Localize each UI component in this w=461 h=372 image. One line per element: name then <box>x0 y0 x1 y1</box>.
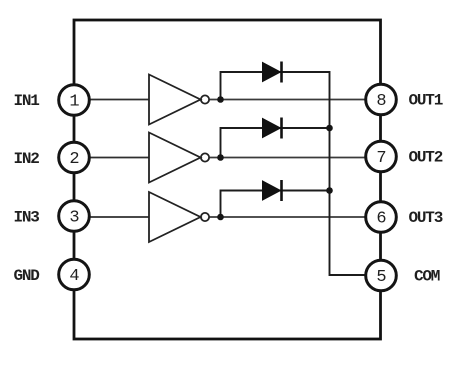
svg-text:8: 8 <box>376 92 386 111</box>
svg-text:OUT2: OUT2 <box>409 149 443 167</box>
svg-text:4: 4 <box>69 267 79 286</box>
svg-text:7: 7 <box>376 149 386 168</box>
svg-text:1: 1 <box>69 93 79 112</box>
svg-text:OUT3: OUT3 <box>409 209 443 227</box>
svg-text:IN1: IN1 <box>14 92 40 110</box>
svg-text:IN3: IN3 <box>14 209 40 227</box>
svg-text:OUT1: OUT1 <box>409 92 443 110</box>
svg-text:5: 5 <box>376 268 386 287</box>
svg-text:3: 3 <box>69 209 79 228</box>
svg-text:6: 6 <box>376 210 386 229</box>
svg-text:2: 2 <box>69 150 79 169</box>
svg-text:COM: COM <box>414 268 440 286</box>
svg-text:IN2: IN2 <box>14 150 40 168</box>
svg-text:GND: GND <box>14 267 40 285</box>
